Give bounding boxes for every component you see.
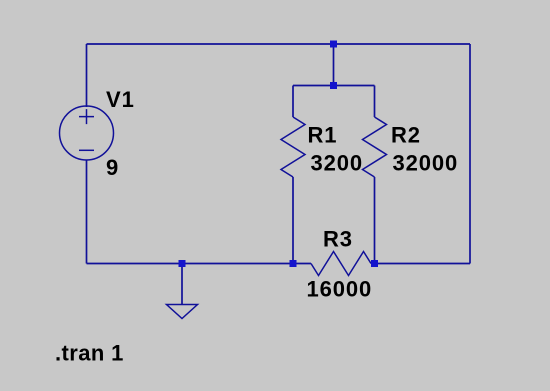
svg-text:R3: R3 xyxy=(323,227,353,252)
svg-text:R2: R2 xyxy=(391,123,421,148)
svg-text:V1: V1 xyxy=(106,87,135,112)
node junction ground xyxy=(179,260,186,267)
svg-text:16000: 16000 xyxy=(307,277,373,302)
node junction R3 right xyxy=(371,260,378,267)
wire R2 bottom lead xyxy=(374,177,376,264)
wire left rail bottom (V1 to bottom rail) xyxy=(86,160,88,264)
voltage source V1 circle xyxy=(60,106,114,160)
svg-text:9: 9 xyxy=(106,155,119,180)
V1 minus sign xyxy=(79,149,94,151)
wire ground stub xyxy=(181,264,183,305)
resistor R3 xyxy=(311,252,371,276)
wire R2 top lead xyxy=(374,86,376,118)
node junction top rail xyxy=(330,41,337,48)
resistor R2 xyxy=(363,117,387,177)
node junction R3 left xyxy=(290,260,297,267)
wire R1 bottom lead xyxy=(292,177,294,264)
wire top rail xyxy=(87,43,471,45)
wire R1 top lead xyxy=(292,86,294,118)
svg-text:32000: 32000 xyxy=(393,151,459,176)
wire bottom right segment xyxy=(371,263,470,265)
svg-text:R1: R1 xyxy=(308,123,338,148)
wire left rail top (V1 to top rail) xyxy=(86,44,88,107)
wire bottom left segment xyxy=(87,263,312,265)
wire parallel top bar xyxy=(293,85,375,87)
svg-text:.tran 1: .tran 1 xyxy=(55,341,124,366)
ground xyxy=(167,305,198,319)
node junction parallel bar xyxy=(330,82,337,89)
wire right rail xyxy=(469,44,471,264)
V1 plus sign xyxy=(79,109,94,124)
svg-text:3200: 3200 xyxy=(311,151,364,176)
wire mid vertical (top rail to parallel bar) xyxy=(333,44,335,86)
resistor R1 xyxy=(281,117,305,177)
